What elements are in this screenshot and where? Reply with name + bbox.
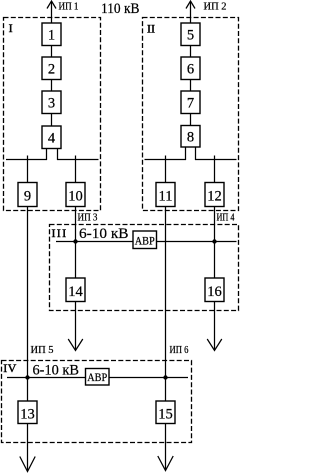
wire box10 down to bus III (ИП3 feed) (75, 207, 77, 242)
source arrow ИП2 (186, 1, 195, 23)
svg-text:12: 12 (207, 189, 222, 205)
svg-text:IV: IV (3, 361, 17, 375)
outgoing arrow below box 15 (158, 424, 173, 471)
svg-text:4: 4 (48, 131, 56, 147)
bus section IV left segment (7, 377, 86, 379)
svg-text:1: 1 (48, 28, 55, 44)
svg-text:АВР: АВР (87, 370, 107, 384)
breaker box 1 (42, 23, 61, 46)
bus section I (6, 159, 99, 161)
transformer box 4 (42, 126, 61, 149)
breaker box 14 (66, 278, 85, 302)
svg-text:13: 13 (20, 407, 35, 423)
source arrow ИП1 (47, 1, 56, 23)
feeder stub and wire to box 12 (214, 156, 216, 183)
svg-text:ИП 5: ИП 5 (31, 345, 54, 356)
section I dashed boundary (4, 18, 101, 211)
section II dashed boundary (143, 18, 239, 211)
svg-text:6: 6 (187, 62, 194, 78)
svg-text:ИП 6: ИП 6 (170, 345, 189, 356)
wire box12 down to bus III (ИП4 feed) (214, 207, 216, 242)
wire box5-box6 (190, 46, 192, 58)
wire box7-box8 (190, 114, 192, 126)
svg-text:ИП 2: ИП 2 (204, 2, 227, 13)
prongs box4 to bus I (47, 149, 58, 161)
svg-text:7: 7 (187, 96, 194, 112)
bus section IV right segment (109, 377, 188, 379)
svg-text:16: 16 (207, 284, 222, 300)
wire box2-box3 (51, 80, 53, 92)
svg-text:ИП 3: ИП 3 (78, 213, 98, 224)
svg-text:I: I (9, 21, 13, 35)
svg-text:10: 10 (68, 189, 83, 205)
ABP (АВР) box section III (133, 231, 157, 249)
outgoing arrow below box 14 (68, 302, 83, 351)
wire box11 down to bus IV (ИП6 feed) (165, 207, 167, 378)
svg-text:6-10 кВ: 6-10 кВ (79, 226, 129, 242)
svg-text:110 кВ: 110 кВ (101, 1, 140, 17)
breaker box 9 (18, 183, 37, 207)
breaker box 10 (66, 183, 85, 207)
wire box6-box7 (190, 80, 192, 92)
prongs box8 to bus II (186, 147, 196, 160)
feeder stub and wire to box 9 (27, 156, 29, 183)
svg-text:8: 8 (187, 130, 194, 146)
junction node bus IV / ИП6 (163, 375, 167, 379)
section III dashed boundary (50, 225, 239, 311)
junction node bus III / ИП4 (212, 239, 216, 243)
feeder stub and wire to box 10 (75, 156, 77, 183)
svg-text:2: 2 (48, 62, 55, 78)
wire box1-box2 (51, 46, 53, 58)
wire box3-box4 (51, 114, 53, 127)
junction node bus III / ИП3 (73, 239, 77, 243)
wire bus IV to box 15 (165, 378, 167, 402)
breaker box 13 (18, 401, 37, 424)
section IV dashed boundary (2, 361, 192, 443)
svg-text:5: 5 (187, 28, 194, 44)
breaker box 11 (156, 183, 175, 207)
junction node bus IV / ИП5 (25, 375, 29, 379)
bus section III left segment (56, 241, 133, 243)
svg-text:АВР: АВР (135, 234, 155, 248)
breaker box 15 (156, 401, 175, 424)
svg-text:ИП 4: ИП 4 (217, 213, 235, 224)
breaker box 2 (42, 57, 61, 80)
wire bus III to box 16 (214, 242, 216, 279)
wire bus III to box 14 (75, 242, 77, 279)
wire box9 down to bus IV (ИП5 feed) (27, 207, 29, 378)
breaker box 3 (42, 91, 61, 114)
bus section III right segment (157, 241, 237, 243)
svg-text:6-10 кВ: 6-10 кВ (33, 362, 80, 378)
svg-text:II: II (147, 21, 155, 35)
svg-text:ИП 1: ИП 1 (59, 2, 79, 13)
feeder stub and wire to box 11 (165, 156, 167, 183)
outgoing arrow below box 13 (20, 424, 35, 472)
breaker box 16 (205, 278, 224, 302)
breaker box 12 (205, 183, 224, 207)
svg-text:III: III (52, 226, 68, 240)
svg-text:9: 9 (24, 189, 31, 205)
svg-text:15: 15 (158, 407, 173, 423)
transformer box 8 (181, 126, 200, 148)
svg-text:11: 11 (159, 189, 173, 205)
outgoing arrow below box 16 (207, 302, 222, 351)
svg-text:3: 3 (48, 96, 55, 112)
bus section II (145, 159, 237, 161)
breaker box 6 (181, 57, 200, 80)
wire bus IV to box 13 (27, 378, 29, 402)
breaker box 7 (181, 91, 200, 114)
svg-text:14: 14 (68, 284, 83, 300)
ABP (АВР) box section IV (86, 369, 110, 386)
breaker box 5 (181, 23, 200, 46)
